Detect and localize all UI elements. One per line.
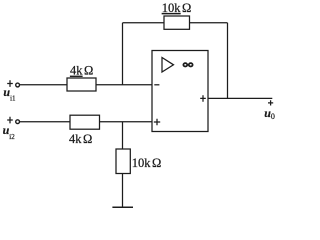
svg-text:10kΩ: 10kΩ (132, 156, 162, 170)
op-amp U1 body (152, 51, 208, 132)
wire noninverting node down to R4 (122, 122, 124, 149)
output plus sign (268, 100, 273, 105)
wire R4 to ground (122, 174, 124, 208)
wire R1 to op-amp inverting input (96, 84, 152, 86)
op-amp U1 output plus sign (200, 95, 206, 101)
resistor R4 10k ohm body (116, 149, 130, 174)
wire feedback top right segment (190, 22, 228, 24)
op-amp U1 triangle symbol (162, 58, 174, 73)
wire input 2 to R2 (20, 121, 70, 123)
terminal input 2 circle (16, 120, 20, 124)
op-amp U1 noninverting input plus sign (154, 119, 160, 125)
wire op-amp output (208, 97, 272, 99)
wire input 1 to R1 (20, 84, 67, 86)
svg-text:10kΩ: 10kΩ (162, 1, 192, 15)
terminal input 1 circle (16, 83, 20, 87)
wire feedback top left segment (123, 22, 165, 24)
svg-text:u0: u0 (264, 106, 275, 121)
resistor R2 4k ohm body (70, 115, 100, 129)
svg-text:ui2: ui2 (3, 123, 16, 141)
svg-text:ui1: ui1 (3, 85, 16, 102)
op-amp U1 infinity gain symbol (183, 63, 192, 66)
wire R2 to op-amp noninverting input (100, 121, 153, 123)
wire feedback left vertical (122, 23, 124, 85)
op-amp U1 inverting input minus sign (154, 84, 159, 86)
svg-text:4kΩ: 4kΩ (69, 132, 92, 146)
resistor R1 4k ohm body (67, 78, 96, 91)
terminal input 2 plus sign (7, 117, 13, 124)
terminal input 1 plus sign (7, 80, 13, 87)
wire feedback right vertical to output node (227, 23, 229, 99)
ground (112, 206, 133, 208)
resistor R3 10k ohm feedback body (164, 16, 190, 29)
svg-text:4kΩ: 4kΩ (70, 64, 93, 78)
